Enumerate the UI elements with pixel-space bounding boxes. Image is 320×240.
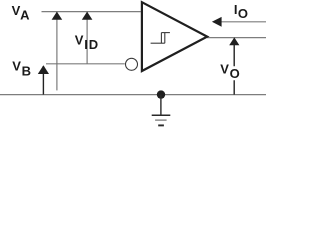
svg-text:A: A <box>20 7 30 22</box>
svg-text:V: V <box>75 33 84 48</box>
svg-text:O: O <box>238 6 248 21</box>
svg-text:V: V <box>12 59 21 74</box>
svg-text:ID: ID <box>84 37 99 52</box>
svg-text:V: V <box>220 62 229 77</box>
svg-text:O: O <box>230 66 240 81</box>
svg-text:B: B <box>22 63 31 78</box>
